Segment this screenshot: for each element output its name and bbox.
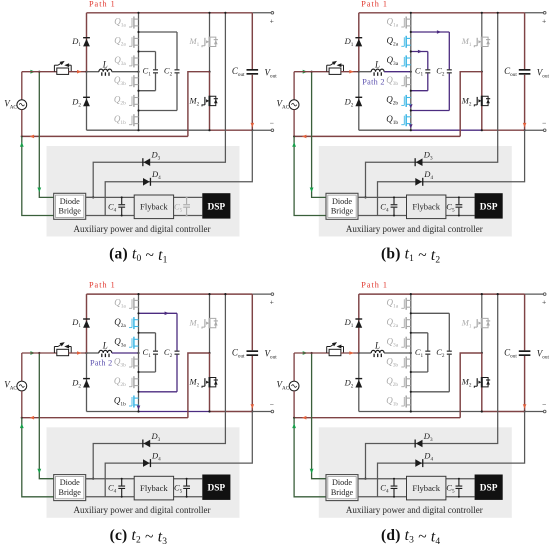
[a] arrow: green along AC line: [30, 70, 35, 74]
[d] diode D4: [415, 459, 423, 467]
[b] wire: bottom bus right segment (Path 1): [482, 129, 525, 131]
svg-text:−: −: [270, 400, 274, 409]
[a] wire: C1 bottom to chain: [139, 90, 156, 92]
[c] relay bypass resistor body: [57, 349, 69, 355]
[c] node: tap1: [137, 312, 139, 314]
[c] wire: tap to C1 top: [139, 332, 156, 334]
[c] wire: green feed to diode bridge (upper): [39, 353, 53, 479]
[b] relay bypass resistor body: [329, 68, 341, 74]
[c] source VAC upper lead: [21, 353, 23, 381]
[c] transistor Q2b: [129, 376, 139, 388]
[a] wire: C1 branch upper: [155, 52, 157, 70]
[d] transistor Q2b: [401, 376, 411, 388]
[a] wire: C2 branch lower: [176, 73, 178, 110]
[a] wire: D3 feed from aux rectifier: [87, 13, 226, 198]
[b] wire: relay to rectifier leg: [341, 71, 359, 73]
[d] wire: C2 branch upper: [448, 313, 450, 350]
[b] node: chain top: [410, 12, 412, 14]
[d] node: chain top: [410, 293, 412, 295]
[d] node: M2 source on bus: [481, 410, 483, 412]
[d] diode D2: [355, 378, 362, 388]
[c] node: + output terminal: [271, 293, 274, 296]
[d] wire: inductor to switch network input: [384, 352, 411, 354]
[d] relay switch contact: [327, 342, 344, 353]
[d] wire: green feed to diode bridge (upper): [312, 353, 326, 479]
[b] wire: C2 bottom to chain: [411, 110, 450, 112]
[a] wire: top DC+ bus (Path 1): [87, 12, 253, 14]
[b] relay switch contact: [327, 61, 344, 72]
[a] wire: M1 branch from top bus: [209, 13, 211, 72]
[b] transistor Q2b: [401, 95, 411, 107]
[d] capacitor C4: [391, 479, 398, 497]
[c] arrow: Path 1 current direction: [77, 351, 82, 355]
[a] node: D3 feed junction: [92, 196, 94, 198]
svg-text:Flyback: Flyback: [140, 483, 168, 493]
[c] auxiliary controller shaded box: [47, 427, 240, 518]
[a] diode D1: [83, 37, 90, 46]
[b] wire: aux bottom rail right: [446, 215, 475, 217]
[b] wire: D1 branch (Path 1): [358, 13, 360, 72]
[d] diode D1: [355, 318, 362, 327]
svg-text:Bridge: Bridge: [59, 207, 82, 216]
[d] wire: neutral link from midpoint (Path 1): [460, 353, 482, 418]
[a] node: C5 taps: [186, 196, 188, 198]
[c] capacitor C2: [175, 351, 180, 355]
svg-text:Path 2: Path 2: [90, 359, 113, 368]
[c] wire: C2 branch upper: [176, 313, 178, 350]
[a] wire: neutral link from midpoint (Path 1): [188, 72, 210, 137]
[b] wire: AC neutral return (Path 1): [294, 135, 460, 137]
[b] wire: stub to - output terminal: [525, 129, 544, 131]
[d] node: - output terminal: [543, 410, 546, 413]
[b] DSP block: [475, 193, 503, 218]
[b] wire: green feed to diode bridge (upper): [312, 72, 326, 198]
[a] arrow: green down into bridge: [37, 188, 41, 193]
[a] capacitor C5: [183, 197, 190, 215]
[d] wire: stub to - output terminal: [525, 411, 544, 413]
[b] transistor Q3a: [401, 55, 411, 67]
[a] wire: C2 bottom to chain: [139, 110, 178, 112]
[c] wire: neutral link from midpoint (Path 1): [188, 353, 210, 418]
[a] wire: tap to C1 top: [139, 51, 156, 53]
[d] wire: Cout branch lower (Path 1): [524, 356, 526, 412]
[d] transistor M2: [474, 377, 490, 388]
[b] wire: bottom bus mid segment: [411, 129, 482, 131]
[d] wire: stub to + output terminal: [525, 293, 544, 295]
[c] flyback converter block: [134, 476, 173, 500]
[b] wire: aux top rail left: [358, 196, 407, 198]
svg-text:DSP: DSP: [480, 202, 498, 212]
[a] wire: Cout branch upper (Path 1): [251, 13, 253, 69]
[d] wire: aux bottom rail left: [358, 496, 407, 498]
[b] node: junction Cout / - bus: [524, 129, 526, 131]
svg-text:Diode: Diode: [332, 197, 352, 206]
svg-text:Diode: Diode: [332, 478, 352, 487]
svg-text:Auxiliary power and digital co: Auxiliary power and digital controller: [346, 505, 483, 515]
[c] wire: stub to + output terminal: [252, 293, 271, 295]
[b] arrow: return current toward source: [302, 135, 307, 139]
[d] node: AC source bottom junction: [293, 417, 295, 419]
[c] wire: Cout branch lower (Path 1): [251, 356, 253, 412]
[c] wire: D3 feed from aux rectifier: [87, 294, 226, 479]
[b] source VAC lower lead: [293, 110, 295, 137]
[d] wire: aux top rail left: [358, 478, 407, 480]
[a] wire: bottom bus right segment (Path 1): [210, 129, 253, 131]
[d] wire: D4 link to minus bus: [378, 412, 525, 497]
[c] wire: bottom bus mid segment: [139, 411, 210, 413]
[d] node: green tap on AC line: [311, 352, 313, 354]
svg-text:L: L: [374, 341, 380, 351]
[c] DSP block: [202, 475, 230, 500]
[a] wire: C2 branch upper: [176, 32, 178, 69]
[c] node: tap2: [137, 332, 139, 334]
[a] node: junction Cout / - bus: [251, 129, 253, 131]
[d] node: rectifier leg midpoint: [358, 352, 360, 354]
[b] arrow: Path 1 current into - bus: [523, 123, 527, 128]
[c] wire: switch cell chain: [138, 294, 140, 411]
[c] arrow: return current toward source: [30, 416, 35, 420]
[d] arrow: return current toward source: [302, 416, 307, 420]
[a] wire: D4 link to minus bus: [105, 130, 252, 215]
[a] node: D3 top bus tap: [224, 12, 226, 14]
[a] arrow: green up toward AC source: [20, 142, 24, 147]
[a] capacitor C1: [153, 69, 158, 73]
[d] node: chain bottom: [410, 410, 412, 412]
[c] source VAC symbol: [17, 381, 27, 391]
[a] wire: aux top rail right: [174, 196, 203, 198]
[d] arrow: Path 1 current direction: [349, 351, 354, 355]
[c] wire: aux top rail right: [174, 478, 203, 480]
[b] diode D4: [415, 178, 423, 186]
[b] wire: leg to inductor: [359, 71, 371, 73]
svg-text:Diode: Diode: [60, 197, 80, 206]
[a] node: + output terminal: [271, 12, 274, 15]
[a] wire: Cout branch lower (Path 1): [251, 75, 253, 131]
[d] diode bridge block: [326, 475, 358, 501]
[c] transistor Q3a: [129, 337, 139, 349]
svg-text:Bridge: Bridge: [331, 488, 354, 497]
[c] wire: D2 branch: [86, 353, 88, 412]
[a] transistor Q2a: [129, 36, 139, 48]
[c] node: M branch top: [208, 293, 210, 295]
[a] node: M2 source on bus: [208, 129, 210, 131]
[c] wire: tap to C2 top: [139, 312, 178, 314]
[a] wire: AC line to relay: [22, 71, 57, 73]
[d] arrow: Path 1 current into - bus: [523, 404, 527, 409]
[a] wire: M2 branch to bottom bus (Path 1): [209, 72, 211, 131]
[b] node: M2 source on bus: [481, 129, 483, 131]
[a] relay bypass resistor body: [57, 68, 69, 74]
[b] arrow: green along AC line: [303, 70, 308, 74]
[a] node: M branch top: [208, 12, 210, 14]
[d] node: tap1: [410, 312, 412, 314]
[a] node: tap3: [137, 90, 139, 92]
[c] wire: aux bottom rail right: [174, 496, 203, 498]
svg-text:Flyback: Flyback: [140, 202, 168, 212]
[c] wire: C1 bottom to chain: [139, 371, 156, 373]
[c] arrow: green down into bridge: [37, 469, 41, 474]
[a] wire: bottom bus mid segment: [139, 129, 210, 131]
[b] transistor Q2a: [401, 36, 411, 48]
[d] wire: AC line to relay: [294, 352, 329, 354]
[c] arrow: green up toward AC source: [20, 423, 24, 428]
[b] node: tap3: [410, 90, 412, 92]
[b] arrow: Path 2 into C2 loop: [437, 30, 441, 34]
svg-text:Path 1: Path 1: [89, 281, 116, 290]
[b] capacitor C1: [425, 69, 430, 73]
[d] wire: aux bottom rail right: [446, 496, 475, 498]
[b] wire: inductor to switch network input: [384, 71, 411, 73]
[b] wire: aux top rail right: [446, 196, 475, 198]
[b] node: - output terminal: [543, 129, 546, 132]
svg-text:L: L: [102, 341, 108, 351]
[d] transistor Q1a: [401, 298, 411, 310]
[d] wire: tap to C1 top: [411, 332, 428, 334]
[a] wire: green feed to diode bridge (upper): [39, 72, 53, 198]
[c] transistor Q1b: [129, 396, 139, 408]
[d] transistor Q3b: [401, 357, 411, 369]
[c] node: M half-bridge midpoint: [208, 352, 210, 354]
[a] node: C4 taps: [121, 196, 123, 198]
[b] node: D3 feed junction: [364, 196, 366, 198]
svg-text:−: −: [542, 400, 546, 409]
[a] transistor Q1a: [129, 17, 139, 29]
[d] inductor L: [371, 350, 384, 357]
[d] node: tap2: [410, 332, 412, 334]
[d] wire: top DC+ bus (Path 1): [359, 293, 525, 295]
[b] node: C5 taps: [458, 196, 460, 198]
[b] node: green tap on AC line: [311, 71, 313, 73]
[d] DSP block: [475, 475, 503, 500]
[c] transistor Q2a: [129, 317, 139, 329]
[c] wire: top DC+ bus (Path 1): [87, 293, 253, 295]
[d] wire: bottom bus left segment: [359, 411, 411, 413]
[a] wire: D2 branch: [86, 72, 88, 131]
[d] node: C4 taps: [393, 478, 395, 480]
[d] capacitor C5: [456, 479, 463, 497]
[d] wire: Cout branch upper (Path 1): [524, 294, 526, 350]
[c] source VAC lower lead: [21, 391, 23, 418]
[a] diode bridge block: [54, 193, 86, 219]
[d] arrow: green along AC line: [303, 351, 308, 355]
[c] node: D3 feed junction: [92, 478, 94, 480]
[b] node: rectifier leg midpoint: [358, 71, 360, 73]
[b] arrow: green up toward AC source: [292, 142, 296, 147]
[c] node: tap4: [137, 391, 139, 393]
svg-text:−: −: [542, 119, 546, 128]
[d] source VAC symbol: [289, 381, 299, 391]
[d] wire: M2 branch to bottom bus (Path 1): [481, 353, 483, 412]
[d] wire: D2 branch: [358, 353, 360, 412]
[a] diode D4: [143, 178, 151, 186]
[a] node: - output terminal: [271, 129, 274, 132]
[a] arrow: Path 1 current into - bus: [251, 123, 255, 128]
[c] wire: C2 bottom to chain: [139, 391, 178, 393]
[c] wire: AC line to relay: [22, 352, 57, 354]
[d] source VAC lower lead: [293, 391, 295, 418]
[a] wire: switch cell chain: [138, 13, 140, 130]
[b] wire: tap to C2 top: [411, 31, 450, 33]
[d] wire: M1 branch from top bus: [481, 294, 483, 353]
svg-text:+: +: [270, 16, 274, 25]
[c] wire: inductor to switch network input: [112, 352, 139, 354]
[c] relay switch contact: [54, 342, 71, 353]
[b] node: C4 taps: [393, 196, 395, 198]
[c] node: chain top: [137, 293, 139, 295]
[d] wire: C1 branch upper: [427, 333, 429, 351]
[d] wire: D1 branch (Path 1): [358, 294, 360, 353]
[d] wire: leg to inductor: [359, 352, 371, 354]
[a] transistor Q1b: [129, 114, 139, 126]
[a] wire: relay to rectifier leg: [69, 71, 87, 73]
[a] node: chain top: [137, 12, 139, 14]
[d] capacitor Cout: [519, 350, 531, 356]
[c] diode D4: [143, 459, 151, 467]
[a] relay switch contact: [54, 61, 71, 72]
[b] wire: top DC+ bus (Path 1): [359, 12, 525, 14]
[d] flyback converter block: [407, 476, 446, 500]
[b] diode D3: [415, 158, 423, 166]
[b] wire: D3 feed from aux rectifier: [359, 13, 498, 198]
svg-text:Path 1: Path 1: [361, 0, 388, 8]
[a] node: chain bottom: [137, 129, 139, 131]
svg-text:Path 1: Path 1: [89, 0, 116, 8]
[c] wire: C1 branch lower: [155, 355, 157, 372]
[b] wire: tap to C1 top: [411, 51, 428, 53]
[d] node: tap4: [410, 391, 412, 393]
svg-text:Flyback: Flyback: [412, 202, 440, 212]
[c] arrow: Path 1 current into - bus: [251, 404, 255, 409]
[c] wire: AC neutral return (Path 1): [22, 417, 188, 419]
[c] wire: bottom bus right segment (Path 1): [210, 411, 253, 413]
[b] wire: Cout branch lower (Path 1): [524, 75, 526, 131]
[d] transistor Q1b: [401, 396, 411, 408]
[b] wire: D2 branch: [358, 72, 360, 131]
[d] wire: relay to rectifier leg: [341, 352, 359, 354]
svg-text:Path 2: Path 2: [362, 77, 385, 86]
[c] transistor M2: [202, 377, 218, 388]
[a] transistor Q2b: [129, 95, 139, 107]
[b] node: chain bottom: [410, 129, 412, 131]
[d] diode D3: [415, 440, 423, 448]
[b] capacitor C5: [456, 197, 463, 215]
[d] source VAC upper lead: [293, 353, 295, 381]
[b] node: tap2: [410, 50, 412, 52]
[a] transistor Q3a: [129, 55, 139, 67]
[b] inductor L: [371, 69, 384, 76]
[b] wire: C2 branch lower: [448, 73, 450, 110]
[b] node: AC source bottom junction: [293, 135, 295, 137]
[c] wire: green return to diode bridge (lower): [22, 418, 54, 497]
[c] node: chain bottom: [137, 410, 139, 412]
[b] auxiliary controller shaded box: [319, 146, 512, 237]
[b] transistor Q3b: [401, 75, 411, 87]
[c] node: - output terminal: [271, 410, 274, 413]
[b] node: M half-bridge midpoint: [481, 71, 483, 73]
[a] wire: tap to C2 top: [139, 31, 178, 33]
[a] node: AC source bottom junction: [21, 135, 23, 137]
[c] node: AC source bottom junction: [21, 417, 23, 419]
[c] node: M2 source on bus: [208, 410, 210, 412]
[d] wire: bottom bus mid segment: [411, 411, 482, 413]
[b] diode D1: [355, 37, 362, 46]
[c] wire: D4 link to minus bus: [105, 412, 252, 497]
[b] source VAC symbol: [289, 100, 299, 110]
[a] arrow: return current toward source: [30, 135, 35, 139]
[b] node: tap1: [410, 31, 412, 33]
svg-text:Auxiliary power and digital co: Auxiliary power and digital controller: [74, 505, 211, 515]
[b] node: tap4: [410, 109, 412, 111]
[a] node: tap4: [137, 109, 139, 111]
[d] node: C5 taps: [458, 478, 460, 480]
[b] arrow: Path 2 down chain mid: [409, 104, 413, 108]
[c] node: C5 taps: [186, 478, 188, 480]
[d] node: junction Cout / - bus: [524, 410, 526, 412]
svg-text:DSP: DSP: [207, 484, 225, 494]
[b] wire: M1 branch from top bus: [481, 13, 483, 72]
[c] transistor Q1a: [129, 298, 139, 310]
[c] node: rectifier leg midpoint: [85, 352, 87, 354]
[d] arrow: green down into bridge: [310, 469, 314, 474]
[d] transistor Q2a: [401, 317, 411, 329]
[b] wire: C1 branch lower: [427, 73, 429, 90]
[b] arrow: Path 2 into C1 loop: [418, 50, 422, 54]
[a] node: tap1: [137, 31, 139, 33]
[a] node: tap2: [137, 50, 139, 52]
[b] wire: Cout branch upper (Path 1): [524, 13, 526, 69]
[b] wire: C1 bottom to chain: [411, 90, 428, 92]
[c] wire: aux top rail left: [86, 478, 135, 480]
[c] node: green tap on AC line: [38, 352, 40, 354]
svg-text:Bridge: Bridge: [331, 207, 354, 216]
[d] wire: green return to diode bridge (lower): [294, 418, 326, 497]
[d] node: switch network input: [410, 352, 412, 354]
[d] wire: C1 bottom to chain: [411, 371, 428, 373]
[b] wire: D4 link to minus bus: [378, 130, 525, 215]
[b] wire: AC line to relay: [294, 71, 329, 73]
[a] wire: green return to diode bridge (lower): [22, 136, 54, 215]
svg-text:Diode: Diode: [60, 478, 80, 487]
[d] node: D3 top bus tap: [497, 293, 499, 295]
[b] wire: neutral link from midpoint (Path 1): [460, 72, 482, 137]
[c] arrow: Path 2 into C2 loop: [165, 312, 169, 316]
[d] wire: C2 bottom to chain: [411, 391, 450, 393]
[b] wire: green return to diode bridge (lower): [294, 136, 326, 215]
[d] wire: AC neutral return (Path 1): [294, 417, 460, 419]
[b] node: M branch top: [481, 12, 483, 14]
[a] diode D2: [83, 97, 90, 107]
[a] wire: aux top rail left: [86, 196, 135, 198]
[c] diode D3: [142, 440, 150, 448]
[c] transistor M1: [202, 318, 218, 329]
[c] wire: relay to rectifier leg: [69, 352, 87, 354]
[c] wire: C2 branch lower: [176, 355, 178, 392]
[d] auxiliary controller shaded box: [319, 427, 512, 518]
[d] transistor Q3a: [401, 337, 411, 349]
[c] wire: D1 branch (Path 1): [86, 294, 88, 353]
[c] capacitor C4: [118, 479, 125, 497]
[d] wire: C2 branch lower: [448, 355, 450, 392]
[a] wire: AC neutral return (Path 1): [22, 135, 188, 137]
[d] wire: C1 branch lower: [427, 355, 429, 372]
[c] wire: bottom bus left segment: [87, 411, 139, 413]
[a] source VAC lower lead: [21, 110, 23, 137]
svg-text:+: +: [542, 16, 546, 25]
[a] capacitor C2: [175, 69, 180, 73]
[b] flyback converter block: [407, 195, 446, 219]
[d] node: M half-bridge midpoint: [481, 352, 483, 354]
[c] wire: Cout branch upper (Path 1): [251, 294, 253, 350]
